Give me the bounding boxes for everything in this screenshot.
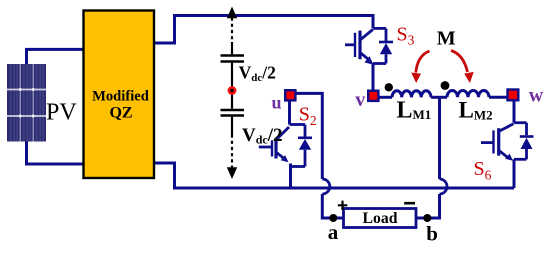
svg-text:a: a (328, 220, 339, 244)
svg-text:Modified: Modified (92, 88, 149, 104)
svg-text:w: w (529, 85, 544, 107)
svg-text:u: u (272, 93, 282, 113)
svg-text:b: b (426, 222, 438, 246)
svg-text:M: M (437, 27, 456, 49)
svg-text:PV: PV (46, 100, 77, 126)
svg-text:Load: Load (363, 210, 398, 227)
svg-text:v: v (355, 89, 365, 111)
svg-text:QZ: QZ (109, 105, 132, 122)
